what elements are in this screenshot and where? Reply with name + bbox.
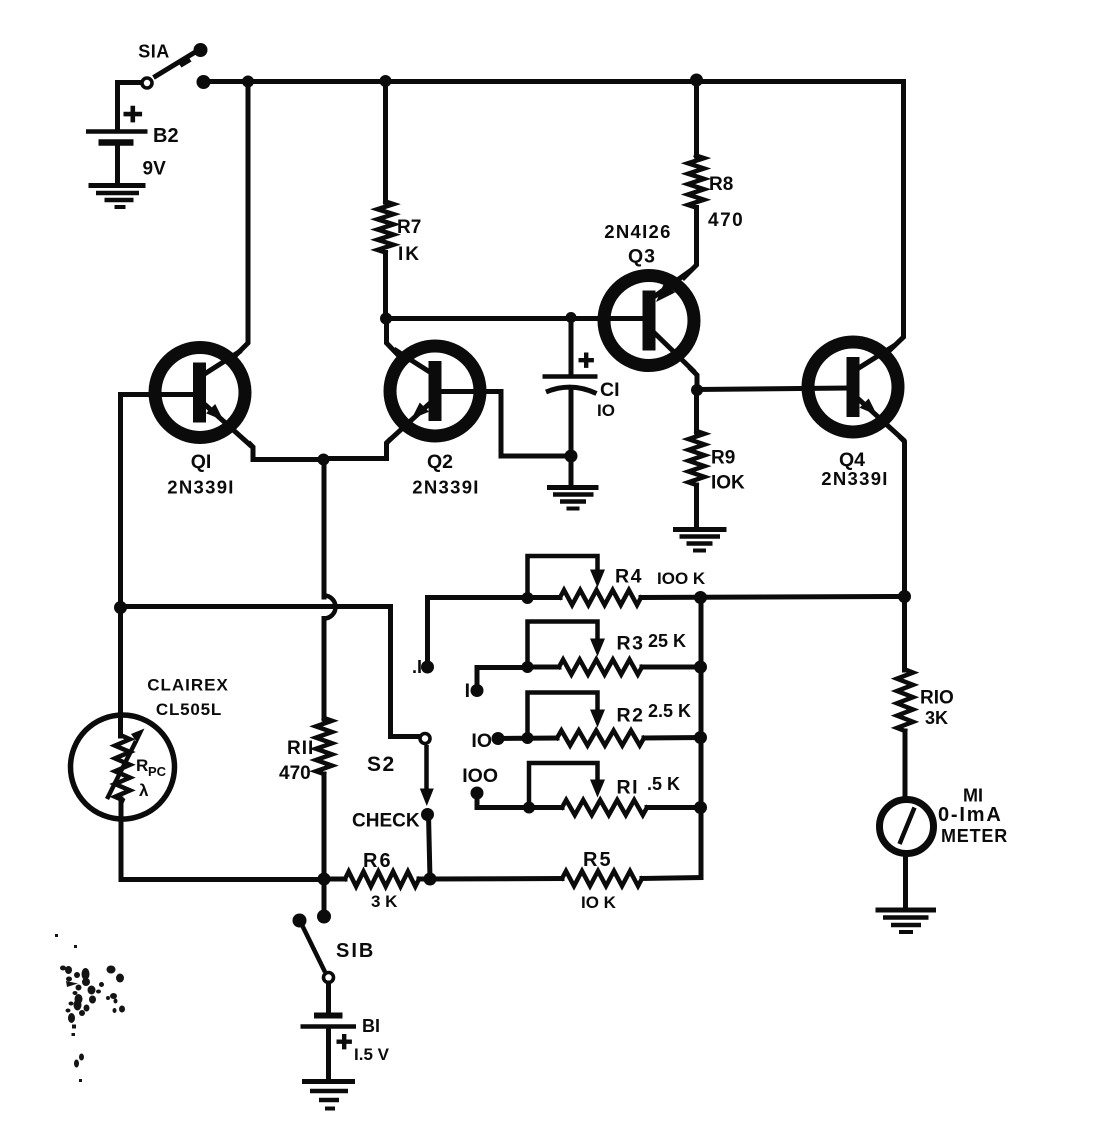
resistor R2 2.5K <box>557 731 644 746</box>
svg-text:470: 470 <box>279 763 311 784</box>
wire B2 to ground <box>115 146 120 183</box>
switch loop R4 bypass <box>528 556 606 595</box>
svg-text:IO: IO <box>597 401 615 420</box>
wire .1 contact up to R4 row <box>428 598 561 668</box>
svg-text:470: 470 <box>708 210 744 231</box>
svg-text:QI: QI <box>191 451 212 473</box>
switch S2 wiper arrow to CHECK <box>420 745 434 806</box>
wire R6 ends <box>324 877 345 882</box>
wire Q3 collector down to node <box>691 369 697 390</box>
wire base bus to Q3 <box>386 316 643 321</box>
wire C1 top lead <box>569 318 574 375</box>
svg-text:R2: R2 <box>617 705 645 727</box>
node range 100 contact <box>471 787 484 800</box>
svg-text:3 K: 3 K <box>371 892 398 911</box>
switch loop R1 bypass <box>529 763 605 804</box>
capacitor C1 10 <box>543 353 598 394</box>
node R6 left junction <box>318 873 331 886</box>
svg-text:PC: PC <box>148 764 167 779</box>
svg-text:IOO: IOO <box>462 765 498 787</box>
resistor R8 470 <box>688 156 704 208</box>
svg-text:IK: IK <box>398 244 421 265</box>
resistor R6 3K <box>345 872 419 887</box>
wire range bus vertical <box>699 598 704 878</box>
node Q1 base junction with S2 feed <box>114 601 127 614</box>
svg-text:METER: METER <box>941 826 1008 846</box>
wire 10 contact to R2 row <box>498 736 557 742</box>
svg-text:I: I <box>465 680 470 702</box>
svg-text:IOO K: IOO K <box>657 569 706 588</box>
node rail junction R8 <box>690 74 703 87</box>
wire S1B to B1 <box>326 983 331 1013</box>
svg-text:2N339I: 2N339I <box>167 477 234 498</box>
svg-text:CI: CI <box>600 379 620 401</box>
svg-text:R8: R8 <box>709 174 733 195</box>
svg-text:IOK: IOK <box>711 473 745 494</box>
transistor Q2 2N3391 <box>388 346 480 442</box>
transistor Q1 2N3391 <box>155 348 250 446</box>
wire Q1 base node down to photocell <box>118 608 123 737</box>
wire 100 contact to R1 row <box>477 797 562 808</box>
svg-text:SIB: SIB <box>336 940 375 962</box>
svg-text:2N339I: 2N339I <box>412 477 479 498</box>
svg-text:IO K: IO K <box>581 893 617 912</box>
wire 1 contact to R3 row <box>477 668 528 687</box>
resistor R11 470 <box>316 718 332 774</box>
svg-text:SIA: SIA <box>138 42 170 62</box>
ground M1 <box>876 910 937 932</box>
svg-text:BI: BI <box>362 1016 380 1036</box>
svg-text:3K: 3K <box>925 708 948 728</box>
node R2 left loop junction <box>522 732 534 744</box>
meter M1 0-1mA <box>880 800 934 854</box>
svg-text:.5 K: .5 K <box>647 774 680 794</box>
ground R9 <box>673 530 727 551</box>
svg-text:.I: .I <box>412 657 422 677</box>
switch S2 pivot <box>420 734 430 744</box>
ground B1 <box>302 1082 355 1109</box>
node rail start dot <box>197 75 211 89</box>
node rail junction R7 <box>380 75 392 87</box>
battery B2 <box>86 106 148 143</box>
svg-text:R: R <box>136 756 148 775</box>
node S1B fixed contact <box>317 910 331 924</box>
node range 10 contact <box>492 732 505 745</box>
wire R9 top <box>694 390 699 432</box>
node range .1 contact <box>421 661 434 674</box>
wire R4 right to bus and Q4 emitter column <box>641 597 905 598</box>
scan specks bottom left <box>55 934 125 1082</box>
wire B2 positive lead to S1A <box>118 83 142 131</box>
wire Q1 collector to rail <box>236 82 248 356</box>
wire top supply rail <box>203 79 904 84</box>
svg-text:IO: IO <box>471 730 492 752</box>
node R1 left loop junction <box>523 802 535 814</box>
wire meter to ground <box>903 854 908 908</box>
wire R5 left segment <box>430 876 562 882</box>
node Q4 emitter / range bus junction <box>898 590 911 603</box>
node R3 right junction <box>694 661 707 674</box>
wire Q3 collector node to Q4 base <box>697 388 848 390</box>
svg-text:RI: RI <box>617 777 640 799</box>
node C1 top junction <box>566 312 577 323</box>
svg-text:RIO: RIO <box>920 688 954 709</box>
svg-text:I.5 V: I.5 V <box>354 1045 390 1064</box>
svg-text:R9: R9 <box>711 448 735 469</box>
wire R5 row right segment <box>642 878 701 879</box>
wire B1 to ground <box>326 1029 331 1079</box>
svg-text:CHECK: CHECK <box>352 811 420 832</box>
wire R9 bottom to ground <box>694 485 699 527</box>
wire S2 feed horizontal <box>121 607 420 737</box>
wire Q2 emitter to common node <box>324 441 389 459</box>
svg-text:Q2: Q2 <box>427 451 453 473</box>
node R3 left loop junction <box>522 661 534 673</box>
svg-text:CL505L: CL505L <box>156 700 222 719</box>
resistor R3 25K <box>559 660 642 675</box>
svg-text:Q3: Q3 <box>628 246 656 268</box>
wire Q1 emitter to common node <box>250 444 323 460</box>
svg-text:R4: R4 <box>615 566 643 588</box>
wire R2 right <box>644 735 701 741</box>
wire R10 to meter <box>903 731 908 800</box>
resistor R9 10K <box>689 431 705 485</box>
ground B2 <box>89 186 146 208</box>
node R2 right junction <box>694 731 707 744</box>
wire S1B stub <box>322 879 327 912</box>
wire Q4 emitter node to R10 <box>902 597 907 671</box>
resistor R7 1K <box>378 202 394 253</box>
svg-text:2N339I: 2N339I <box>821 468 888 489</box>
resistor R5 10K <box>562 871 642 886</box>
node R4 right junction <box>694 591 707 604</box>
resistor R4 100K <box>560 590 641 605</box>
svg-text:25 K: 25 K <box>648 631 686 651</box>
svg-text:S2: S2 <box>367 753 396 776</box>
svg-text:λ: λ <box>139 781 149 800</box>
svg-text:R3: R3 <box>617 633 645 655</box>
node R7 / Q2 collector junction <box>380 313 392 325</box>
node R4 left loop junction <box>522 592 534 604</box>
wire R7 top <box>383 81 388 202</box>
svg-text:CLAIREX: CLAIREX <box>147 676 229 695</box>
transistor Q3 2N4126 <box>604 271 694 371</box>
photocell RPC CLAIREX CL505L <box>71 715 175 819</box>
node C1 bottom junction <box>565 450 578 463</box>
wire R7 bottom to Q2 collector node <box>383 253 388 319</box>
wire R8 bottom to Q3 emitter <box>684 208 697 278</box>
wire R8 top <box>694 80 699 156</box>
transistor Q4 2N3391 <box>808 342 903 440</box>
wire hop over at R11 column <box>324 596 336 619</box>
node CHECK contact <box>421 808 434 821</box>
svg-text:R5: R5 <box>583 849 613 871</box>
svg-text:B2: B2 <box>153 125 179 147</box>
wire photocell bottom <box>121 799 324 880</box>
switch loop R3 bypass <box>528 622 606 665</box>
wire R11 column from hop to resistor <box>322 619 327 720</box>
wire CHECK contact down to R6/R5 node <box>429 815 431 880</box>
wire Q4 collector to rail <box>890 82 904 351</box>
svg-text:2N4I26: 2N4I26 <box>604 221 671 242</box>
svg-text:RII: RII <box>287 738 314 759</box>
wire R3 row <box>528 665 560 670</box>
svg-text:0-ImA: 0-ImA <box>938 804 1003 826</box>
resistor R1 .5K <box>562 800 647 815</box>
node Q1/Q2 emitter junction <box>318 454 330 466</box>
wire Q1 base <box>121 395 195 606</box>
wire Q2 base to C1 bottom node <box>441 392 571 457</box>
wire Q2 collector <box>387 319 400 357</box>
ground C1 <box>547 488 599 509</box>
wire R1 right <box>647 805 701 810</box>
node range 1 contact <box>471 684 484 697</box>
wire emitter junction down to hop <box>322 460 327 598</box>
wire Q4 emitter down <box>901 438 905 596</box>
battery B1 1.5V <box>301 1016 357 1050</box>
wire R11 bottom <box>322 774 327 879</box>
svg-text:R6: R6 <box>363 850 393 872</box>
wire C1 bottom lead <box>569 391 574 485</box>
svg-text:MI: MI <box>963 786 983 806</box>
resistor R10 3K <box>897 670 913 732</box>
node R6/R5/S2 junction <box>424 873 437 886</box>
svg-text:2.5 K: 2.5 K <box>648 701 691 721</box>
node rail junction Q1 collector <box>242 76 254 88</box>
node R1 right junction <box>694 801 707 814</box>
switch loop R2 bypass <box>528 693 606 736</box>
switch S1B <box>293 914 334 983</box>
switch S1A <box>142 43 208 88</box>
node Q3 collector junction <box>691 384 703 396</box>
svg-text:R7: R7 <box>397 217 421 238</box>
svg-text:9V: 9V <box>143 159 167 180</box>
